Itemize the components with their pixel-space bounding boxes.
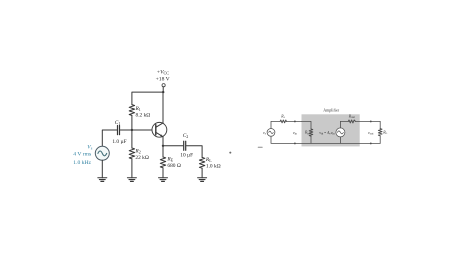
svg-text:Vs: Vs xyxy=(87,144,92,150)
svg-text:1.0 kΩ: 1.0 kΩ xyxy=(206,164,221,170)
wire R1 bottom to base node xyxy=(131,115,133,130)
wire Vs to C1 xyxy=(102,130,116,146)
wire dep source top to Rout xyxy=(340,121,348,128)
transistor Q1 xyxy=(152,122,167,137)
dependent source Av vin xyxy=(336,128,345,137)
svg-text:+VCC: +VCC xyxy=(157,70,169,76)
resistor Rin xyxy=(309,129,313,136)
wire emitter xyxy=(162,137,164,146)
ground (RL) xyxy=(198,178,207,182)
source Vs xyxy=(95,146,109,160)
wire Rout to output xyxy=(356,120,381,122)
svg-text:vs: vs xyxy=(263,131,267,136)
wire emitter to C2 xyxy=(163,145,183,147)
wire Vs to ground xyxy=(101,160,103,178)
wire base node to R2 xyxy=(131,130,133,148)
node base junction xyxy=(131,129,133,131)
svg-text:RL: RL xyxy=(382,130,387,135)
resistor R1 xyxy=(129,105,134,116)
wire dep source bottom xyxy=(339,137,341,144)
wire RL to ground xyxy=(201,168,203,178)
resistor Rout xyxy=(348,120,355,123)
resistor RL xyxy=(199,157,204,168)
node +VCC terminal xyxy=(162,84,165,87)
resistor RE xyxy=(160,157,165,168)
svg-text:vout: vout xyxy=(368,131,374,136)
wire C2 to RL xyxy=(187,146,203,158)
svg-text:C1: C1 xyxy=(115,120,121,126)
wire output right side xyxy=(379,121,381,128)
wire emitter to RE xyxy=(162,146,164,157)
svg-text:Rs: Rs xyxy=(280,114,285,119)
ground (R2) xyxy=(127,178,136,182)
svg-text:8.2 kΩ: 8.2 kΩ xyxy=(136,113,151,119)
svg-text:1.0 kHz: 1.0 kHz xyxy=(73,160,91,166)
svg-text:R1: R1 xyxy=(135,106,141,112)
node emitter junction xyxy=(162,145,164,147)
svg-text:+18 V: +18 V xyxy=(156,77,170,83)
svg-text:R2: R2 xyxy=(134,149,140,155)
ground (RE) xyxy=(159,178,168,182)
amplifier box xyxy=(302,114,360,146)
ground (source) xyxy=(98,178,107,182)
wire collector xyxy=(162,92,164,123)
svg-text:680 Ω: 680 Ω xyxy=(167,163,180,169)
wire VCC to R1 top xyxy=(132,92,163,105)
stray mark dash xyxy=(258,146,262,148)
wire RL model bottom xyxy=(379,136,381,144)
svg-text:22 kΩ: 22 kΩ xyxy=(135,155,148,161)
resistor Rs xyxy=(280,120,286,123)
wire bottom rail xyxy=(271,136,380,143)
svg-text:C2: C2 xyxy=(183,133,189,139)
wire C1 to base xyxy=(120,129,156,131)
source vs (model) xyxy=(267,129,275,137)
svg-text:RL: RL xyxy=(205,157,212,163)
wire vs top to Rs xyxy=(271,121,280,128)
node output bottom xyxy=(370,142,372,144)
wire RE to ground xyxy=(162,168,164,178)
node input bottom xyxy=(294,142,296,144)
svg-text:4 V rms: 4 V rms xyxy=(73,151,91,157)
wire R2 to ground xyxy=(131,159,133,178)
wire Rs to input port xyxy=(286,120,301,122)
stray mark dot xyxy=(229,152,231,154)
svg-text:RE: RE xyxy=(166,157,173,163)
wire Rin bottom xyxy=(310,136,312,143)
resistor RL (model) xyxy=(378,129,382,136)
svg-text:1.0 µF: 1.0 µF xyxy=(112,139,126,145)
wire input top inside box to Rin xyxy=(302,121,312,129)
node input top xyxy=(294,120,296,122)
svg-text:Amplifier: Amplifier xyxy=(323,107,339,112)
capacitor C1 xyxy=(118,126,120,135)
node output top xyxy=(370,120,372,122)
resistor R2 xyxy=(129,148,134,159)
capacitor C2 xyxy=(184,141,186,150)
wire VCC stem xyxy=(162,87,164,92)
svg-text:vin: vin xyxy=(293,131,297,136)
svg-text:10 µF: 10 µF xyxy=(180,152,193,158)
node VCC junction xyxy=(162,91,164,93)
